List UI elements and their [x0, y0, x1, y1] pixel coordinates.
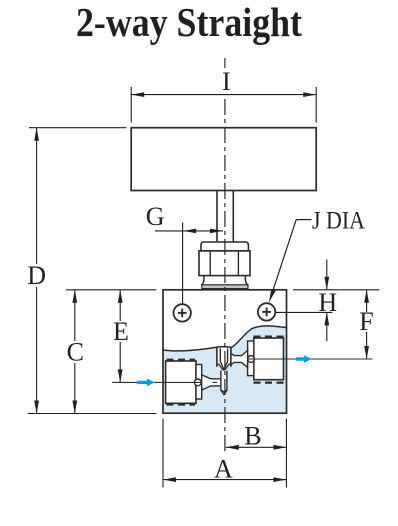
F dimension: [357, 290, 376, 359]
centerline: [224, 58, 226, 68]
needle channel: [217, 347, 231, 371]
svg-text:I: I: [222, 67, 231, 96]
I dimension: [131, 67, 316, 123]
H dimension: [276, 260, 380, 342]
svg-text:H: H: [318, 288, 337, 317]
gasket: [202, 285, 248, 289]
svg-text:F: F: [359, 307, 373, 336]
D dimension: [27, 128, 157, 414]
cyan flow arrow right: [296, 355, 312, 363]
mounting hole left: [174, 304, 191, 321]
left port: [166, 360, 202, 405]
packing cap: [201, 242, 248, 251]
hex nut: [199, 251, 250, 276]
cyan flow arrow left: [137, 379, 155, 387]
needle: [220, 348, 227, 369]
J DIA leader: [269, 208, 365, 303]
lower stem: [221, 371, 227, 392]
svg-text:E: E: [113, 317, 129, 346]
stem: [216, 191, 218, 243]
right port: [248, 337, 285, 383]
A dimension: [163, 455, 286, 484]
B dimension: [226, 421, 287, 450]
svg-text:A: A: [214, 455, 233, 484]
mounting hole right: [258, 303, 275, 320]
blue flow region: [163, 326, 287, 413]
svg-text:B: B: [244, 421, 261, 450]
svg-text:C: C: [67, 338, 84, 367]
G dimension: [146, 202, 223, 303]
left funnel/throat: [202, 375, 222, 390]
E dimension: [111, 290, 130, 383]
port centerlines: [112, 381, 201, 383]
svg-text:2-way Straight: 2-way Straight: [76, 0, 302, 45]
svg-text:J DIA: J DIA: [312, 208, 365, 235]
wavy break line: [163, 326, 287, 351]
neck: [202, 276, 204, 285]
body: [163, 290, 287, 413]
right funnel/throat: [231, 350, 248, 367]
svg-text:G: G: [146, 202, 165, 231]
right port circle: [248, 356, 255, 363]
svg-text:D: D: [27, 261, 46, 290]
A/B extension lines: [162, 419, 164, 488]
left port circle: [194, 379, 201, 386]
handle: [131, 128, 316, 191]
C dimension: [65, 290, 156, 414]
